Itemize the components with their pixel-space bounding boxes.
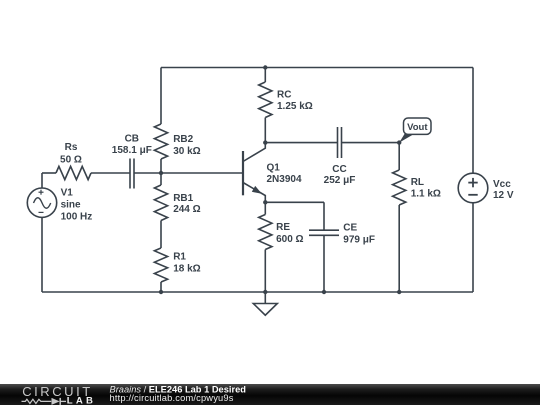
svg-text:Rs: Rs — [65, 142, 78, 153]
svg-text:RB2: RB2 — [173, 134, 193, 145]
svg-text:30 kΩ: 30 kΩ — [173, 146, 200, 157]
svg-text:RC: RC — [277, 89, 291, 100]
svg-text:1.1 kΩ: 1.1 kΩ — [411, 188, 441, 199]
svg-text:100 Hz: 100 Hz — [61, 211, 93, 222]
svg-text:158.1 μF: 158.1 μF — [112, 145, 152, 156]
svg-text:CC: CC — [332, 164, 346, 175]
svg-text:http://circuitlab.com/cpwyu9s: http://circuitlab.com/cpwyu9s — [110, 393, 234, 403]
svg-text:244 Ω: 244 Ω — [173, 204, 200, 215]
svg-text:18 kΩ: 18 kΩ — [173, 263, 200, 274]
svg-text:RL: RL — [411, 177, 424, 188]
svg-text:Q1: Q1 — [267, 163, 281, 174]
svg-text:979 μF: 979 μF — [343, 234, 375, 245]
svg-text:sine: sine — [61, 200, 81, 211]
svg-text:RE: RE — [276, 222, 290, 233]
svg-text:V1: V1 — [61, 188, 74, 199]
svg-text:CB: CB — [125, 134, 139, 145]
svg-text:R1: R1 — [173, 252, 186, 263]
svg-text:LAB: LAB — [67, 395, 96, 405]
svg-text:Vcc: Vcc — [493, 179, 511, 190]
svg-text:50 Ω: 50 Ω — [60, 154, 82, 165]
svg-text:1.25 kΩ: 1.25 kΩ — [277, 101, 313, 112]
svg-text:2N3904: 2N3904 — [267, 174, 302, 185]
svg-text:252 μF: 252 μF — [324, 175, 356, 186]
svg-text:CE: CE — [343, 223, 357, 234]
svg-text:Vout: Vout — [407, 122, 428, 133]
svg-text:12 V: 12 V — [493, 190, 514, 201]
svg-text:600 Ω: 600 Ω — [276, 234, 303, 245]
svg-text:RB1: RB1 — [173, 193, 193, 204]
